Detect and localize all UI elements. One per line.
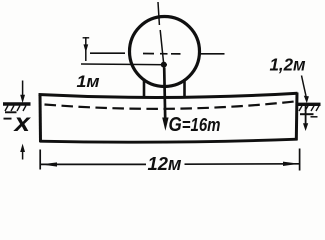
water surface line right — [296, 103, 321, 106]
barge hull top edge (deck) — [39, 93, 298, 97]
horizontal line to CG dot — [81, 63, 167, 66]
svg-text:1,2м: 1,2м — [270, 55, 306, 75]
right small vertical below waterline — [305, 106, 307, 125]
water surface line left — [3, 102, 31, 105]
centre-of-gravity dot — [161, 62, 167, 68]
barge hull right edge — [295, 93, 299, 141]
svg-text:12м: 12м — [148, 154, 182, 174]
draft dimension upper arrow — [22, 81, 24, 99]
weight vector G arrow — [164, 68, 165, 120]
dimension 1m arrow line — [85, 37, 87, 61]
svg-text:1м: 1м — [77, 72, 100, 91]
small dash right — [311, 116, 318, 118]
barge hull left edge — [39, 94, 43, 143]
boiler cylinder U (circle) — [130, 17, 200, 87]
boiler support right — [183, 79, 186, 98]
boiler support left — [143, 79, 146, 97]
vertical centerline of boiler — [158, 2, 164, 63]
dimension line 12m right part — [185, 163, 300, 165]
water sub-line right — [300, 113, 314, 115]
dashed waterline inside hull — [45, 102, 295, 109]
barge hull bottom edge — [40, 139, 298, 142]
leader arrow from label 1,2m — [302, 76, 307, 97]
extension line right for 12m — [299, 149, 301, 171]
svg-text:x: x — [12, 109, 31, 137]
draft dimension lower arrow — [22, 150, 24, 160]
dimension line 12m left part — [41, 163, 146, 165]
horizontal axis dash-dot line — [90, 52, 225, 55]
water hatching left — [5, 106, 26, 112]
water sub-line left — [5, 111, 17, 113]
small dash left — [4, 118, 12, 120]
water hatching right — [299, 106, 319, 111]
svg-text:G=16m: G=16m — [169, 113, 221, 136]
extension line left for 12m — [39, 150, 41, 170]
